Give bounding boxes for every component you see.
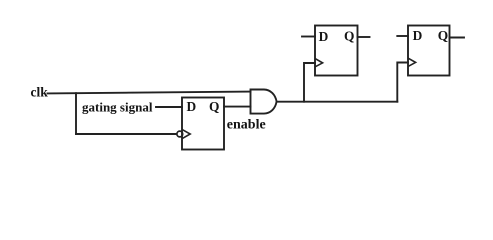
AND gate U2 xyxy=(251,90,277,114)
flip-flop U3 box xyxy=(315,26,358,76)
wire gating signal to U1 D input xyxy=(156,106,182,108)
svg-text:Q: Q xyxy=(209,99,219,114)
U1 clock bubble xyxy=(177,131,183,137)
svg-text:clk: clk xyxy=(31,84,49,99)
svg-text:Q: Q xyxy=(438,28,448,43)
wire enable run (gated clock) xyxy=(277,101,398,103)
wire U4 Q stub xyxy=(450,37,465,39)
svg-text:Q: Q xyxy=(344,29,354,44)
wire U3 Q stub xyxy=(358,36,370,38)
flip-flop U4 box xyxy=(408,26,450,76)
flip-flop U1 box xyxy=(182,98,224,150)
wire U3 D stub xyxy=(302,36,315,38)
wire U4 D stub xyxy=(397,35,408,37)
U1 clock triangle xyxy=(183,130,190,138)
svg-text:enable: enable xyxy=(227,117,266,132)
wire riser to U4 clock xyxy=(397,63,408,102)
svg-text:D: D xyxy=(413,28,423,43)
U3 clock triangle xyxy=(316,59,323,67)
wire clk bottom run to U1 clock bubble xyxy=(76,133,176,135)
wire U1 Q to AND gate lower input xyxy=(224,106,251,108)
wire clk horizontal to gate top input xyxy=(48,92,251,94)
wire riser to U3 clock xyxy=(304,63,315,102)
svg-text:gating signal: gating signal xyxy=(82,99,153,114)
svg-text:D: D xyxy=(319,29,329,44)
wire clk vertical drop xyxy=(75,93,77,134)
svg-text:D: D xyxy=(187,99,197,114)
U4 clock triangle xyxy=(409,58,416,66)
